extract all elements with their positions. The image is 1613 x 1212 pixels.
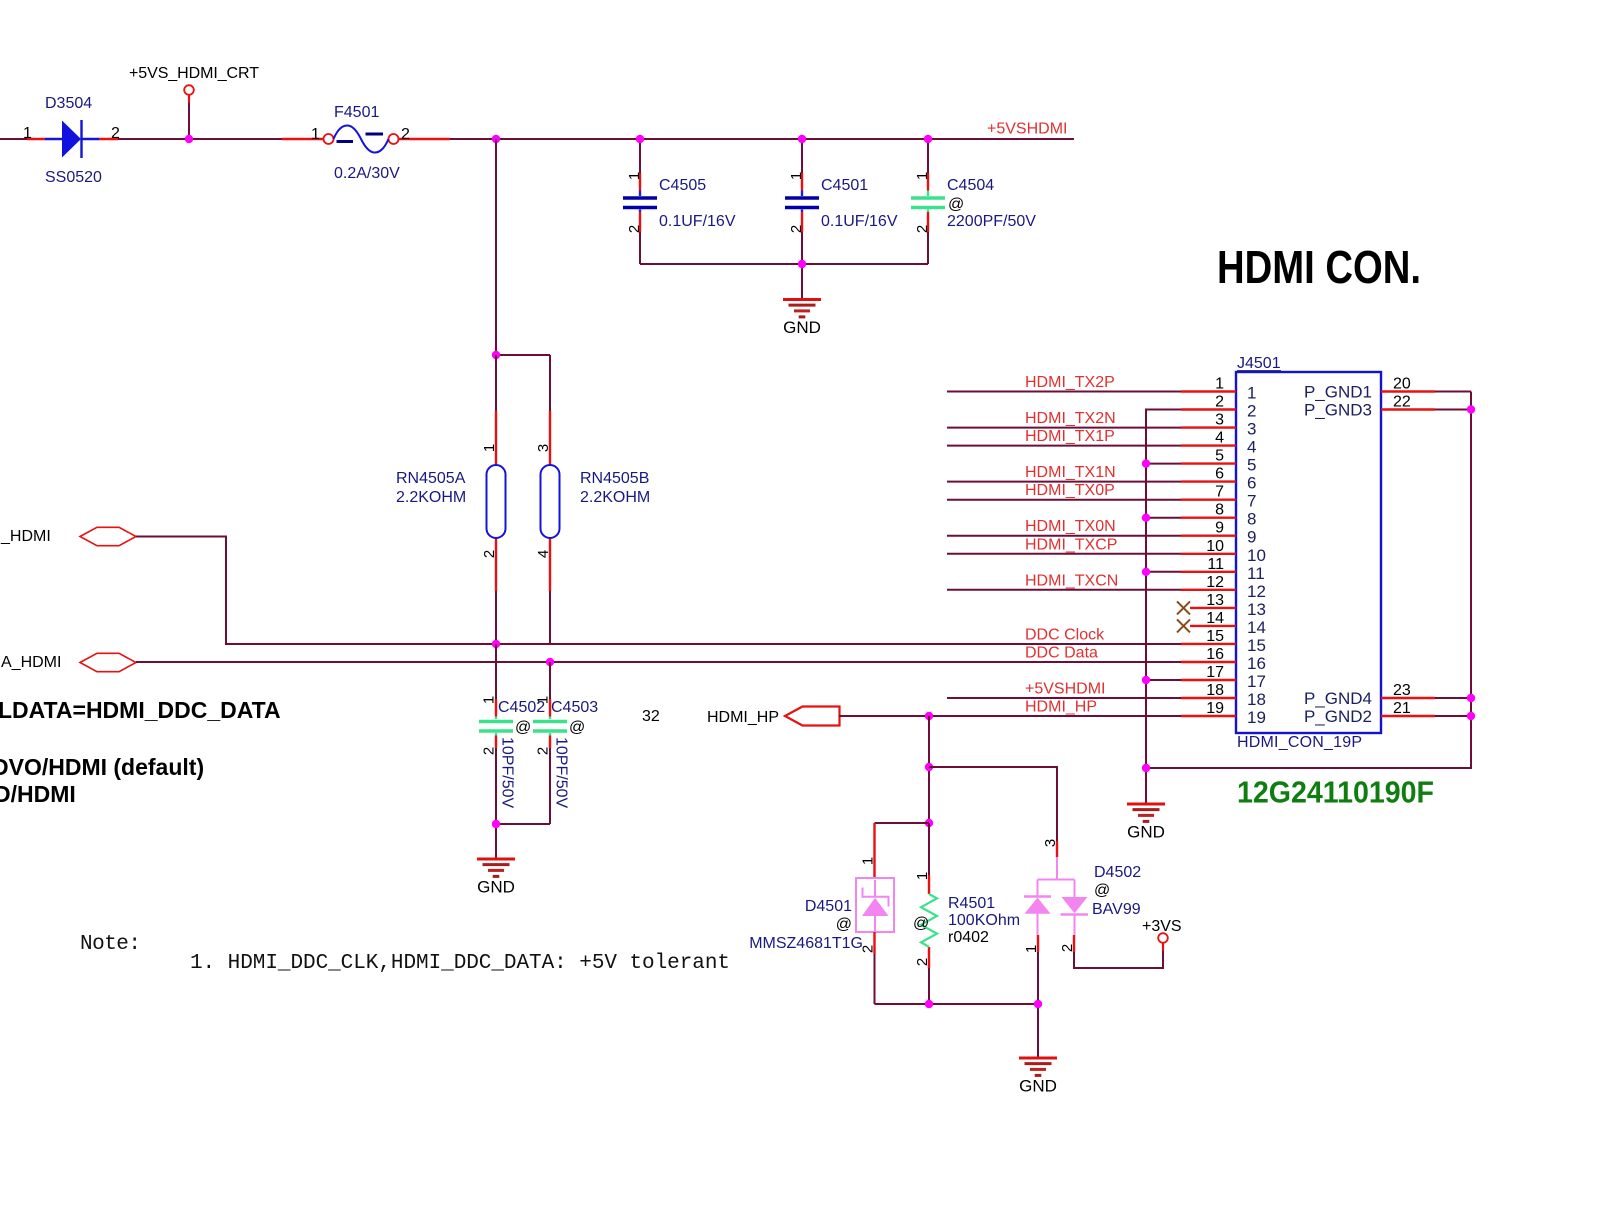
svg-text:1: 1	[481, 444, 498, 452]
svg-text:2.2KOHM: 2.2KOHM	[396, 489, 466, 506]
node junction D4502 branch	[925, 763, 933, 771]
svg-text:16: 16	[1206, 646, 1224, 663]
svg-text:14: 14	[1206, 610, 1224, 627]
wire pin 11 stub	[1181, 571, 1236, 573]
svg-text:C4504: C4504	[947, 177, 994, 194]
svg-text:2: 2	[535, 747, 552, 755]
svg-text:+5VSHDMI: +5VSHDMI	[1025, 681, 1105, 698]
svg-text:LDATA=HDMI_DDC_DATA: LDATA=HDMI_DDC_DATA	[0, 697, 281, 723]
svg-text:1: 1	[1023, 945, 1040, 953]
svg-text:14: 14	[1247, 618, 1266, 637]
svg-text:@: @	[948, 196, 964, 213]
wire pin 2 stub	[1181, 408, 1236, 410]
svg-text:GND: GND	[783, 318, 821, 337]
svg-text:8: 8	[1215, 502, 1224, 519]
svg-text:1: 1	[481, 696, 498, 704]
wire rail to RN4505	[496, 139, 550, 355]
wire bus to pin 5	[1146, 463, 1181, 465]
svg-text:4: 4	[1247, 438, 1256, 457]
svg-text:20: 20	[1393, 376, 1411, 393]
svg-text:0.1UF/16V: 0.1UF/16V	[659, 213, 736, 230]
wire pin 14 stub	[1190, 625, 1236, 627]
wire pin 4 stub	[1181, 444, 1236, 446]
node junction C4502 gnd	[492, 820, 500, 828]
svg-text:GND: GND	[1127, 823, 1165, 842]
wire pin 5 stub	[1181, 462, 1236, 464]
port _HDMI (DDC clock input)	[0, 527, 136, 545]
svg-text:@: @	[836, 916, 852, 933]
node junction DDC clock / RN4505A	[492, 640, 500, 648]
svg-text:2: 2	[1247, 402, 1256, 421]
svg-text:RN4505B: RN4505B	[580, 470, 649, 487]
node junction right gnd	[1467, 405, 1475, 413]
svg-text:1. HDMI_DDC_CLK,HDMI_DDC_DATA:: 1. HDMI_DDC_CLK,HDMI_DDC_DATA: +5V toler…	[190, 952, 730, 975]
svg-text:13: 13	[1247, 600, 1266, 619]
wire bus to pin 17	[1146, 679, 1181, 681]
wire pin 19 stub	[1181, 715, 1236, 717]
svg-text:GND: GND	[1019, 1077, 1057, 1096]
svg-text:100KOhm: 100KOhm	[948, 912, 1020, 929]
svg-text:2: 2	[788, 225, 805, 233]
wire pin 7 stub	[1181, 499, 1236, 501]
svg-text:D3504: D3504	[45, 95, 92, 112]
dual diode D4502	[1023, 839, 1163, 1004]
node junction cap bank gnd	[798, 260, 806, 268]
svg-text:@: @	[1094, 882, 1110, 899]
capacitor C4505	[623, 139, 736, 264]
svg-text:1: 1	[860, 857, 877, 865]
svg-text:2: 2	[401, 126, 410, 143]
svg-text:_HDMI: _HDMI	[0, 528, 51, 545]
svg-text:1: 1	[23, 125, 32, 142]
svg-text:P_GND1: P_GND1	[1304, 383, 1372, 402]
svg-text:@: @	[515, 719, 531, 736]
zener diode D4501	[856, 823, 894, 1004]
svg-text:19: 19	[1247, 708, 1266, 727]
wire pin 3 stub	[1181, 426, 1236, 428]
svg-text:23: 23	[1393, 682, 1411, 699]
svg-text:r0402: r0402	[948, 929, 989, 946]
svg-text:8: 8	[1247, 510, 1256, 529]
svg-text:2: 2	[1215, 394, 1224, 411]
node junction rail D4502	[1034, 1000, 1042, 1008]
svg-text:2: 2	[626, 225, 643, 233]
svg-text:10PF/50V: 10PF/50V	[499, 737, 516, 808]
wire pin 13 stub	[1190, 607, 1236, 609]
svg-text:15: 15	[1247, 636, 1266, 655]
svg-text:A_HDMI: A_HDMI	[1, 654, 61, 671]
no-connect X pin 14	[1177, 619, 1190, 632]
wire bus to pin 11	[1146, 571, 1181, 573]
svg-text:5: 5	[1215, 448, 1224, 465]
svg-text:3: 3	[1215, 412, 1224, 429]
svg-text:5: 5	[1247, 456, 1256, 475]
svg-text:HDMI_TX1N: HDMI_TX1N	[1025, 464, 1116, 481]
svg-text:@: @	[569, 719, 585, 736]
svg-text:2: 2	[111, 125, 120, 142]
svg-text:32: 32	[642, 708, 660, 725]
wire to D4501 pin 1	[875, 822, 930, 824]
power terminal +3VS	[1142, 918, 1182, 943]
wire HDMI_HP down branch	[928, 716, 930, 875]
svg-text:7: 7	[1247, 492, 1256, 511]
node junction HDMI_HP branch	[925, 712, 933, 720]
node junction bus pin 11	[1142, 568, 1150, 576]
svg-text:D4501: D4501	[805, 898, 852, 915]
svg-text:2200PF/50V: 2200PF/50V	[947, 213, 1036, 230]
svg-text:2: 2	[914, 225, 931, 233]
svg-text:10: 10	[1247, 546, 1266, 565]
svg-text:P_GND3: P_GND3	[1304, 401, 1372, 420]
wire C4502/C4503 bottom rail	[496, 824, 550, 859]
capacitor C4504	[911, 139, 1036, 264]
wire DDC data from port to pin 16	[136, 661, 1181, 663]
resistor RN4505B	[535, 355, 560, 644]
svg-text:MMSZ4681T1G: MMSZ4681T1G	[749, 935, 863, 952]
wire bottom rail	[875, 1004, 1039, 1058]
wire pin 6 stub	[1181, 480, 1236, 482]
svg-text:HDMI_HP: HDMI_HP	[1025, 699, 1097, 716]
wire bus to pin 8	[1146, 517, 1181, 519]
svg-text:+5VSHDMI: +5VSHDMI	[987, 121, 1067, 138]
ground connector bus	[1127, 804, 1165, 842]
svg-text:2.2KOHM: 2.2KOHM	[580, 489, 650, 506]
node junction RN feed split	[492, 351, 500, 359]
wire pin 17 stub	[1181, 679, 1236, 681]
svg-text:13: 13	[1206, 592, 1224, 609]
node junction DDC data / RN4505B	[546, 658, 554, 666]
wire right gnd loop	[1146, 392, 1471, 769]
svg-text:2: 2	[1059, 944, 1076, 952]
svg-text:0.1UF/16V: 0.1UF/16V	[821, 213, 898, 230]
wire HDMI_HP to pin 19	[839, 715, 1181, 717]
wire pin 18 stub	[1181, 697, 1236, 699]
port HDMI_HP	[707, 707, 840, 727]
wire pin 8 stub	[1181, 517, 1236, 519]
svg-text:11: 11	[1247, 564, 1265, 583]
no-connect X pin 13	[1177, 601, 1190, 614]
port A_HDMI (DDC data input)	[1, 653, 136, 671]
svg-text:Note:: Note:	[80, 933, 141, 956]
ground cap bank	[783, 300, 821, 338]
node junction bus pin 8	[1142, 514, 1150, 522]
svg-text:3: 3	[1247, 420, 1256, 439]
svg-text:4: 4	[1215, 430, 1224, 447]
wire to D4502 pin 3	[929, 767, 1057, 841]
svg-text:3: 3	[535, 444, 552, 452]
svg-text:19: 19	[1206, 700, 1224, 717]
svg-text:P_GND4: P_GND4	[1304, 689, 1372, 708]
svg-text:1: 1	[788, 172, 805, 180]
svg-text:9: 9	[1247, 528, 1256, 547]
svg-text:+3VS: +3VS	[1142, 918, 1182, 935]
svg-text:DDC Data: DDC Data	[1025, 645, 1098, 662]
svg-text:HDMI_TXCP: HDMI_TXCP	[1025, 536, 1117, 553]
svg-text:17: 17	[1247, 672, 1266, 691]
svg-text:HDMI_TXCN: HDMI_TXCN	[1025, 572, 1118, 589]
svg-text:12: 12	[1247, 582, 1266, 601]
node junction right gnd	[1467, 694, 1475, 702]
svg-text:12G24110190F: 12G24110190F	[1237, 775, 1434, 810]
svg-text:HDMI CON.: HDMI CON.	[1217, 241, 1421, 293]
svg-text:D4502: D4502	[1094, 864, 1141, 881]
node junction C4501 top	[798, 135, 806, 143]
svg-text:2: 2	[481, 747, 498, 755]
svg-text:3: 3	[1042, 839, 1059, 847]
wire pin 21 P_GND2	[1381, 715, 1435, 717]
wire pin 22 P_GND3	[1381, 408, 1435, 410]
svg-text:6: 6	[1247, 474, 1256, 493]
svg-text:1: 1	[914, 872, 931, 880]
wire gnd bus (pins 2,5,8,11,17)	[1146, 410, 1181, 805]
svg-text:1: 1	[311, 126, 320, 143]
svg-text:HDMI_TX2N: HDMI_TX2N	[1025, 410, 1116, 427]
resistor RN4505A	[481, 355, 506, 644]
wire DDC clock from port to pin 15	[136, 537, 1181, 645]
power terminal +5VS_HDMI_CRT	[129, 65, 259, 139]
svg-text:15: 15	[1206, 628, 1224, 645]
svg-text:6: 6	[1215, 466, 1224, 483]
svg-text:10: 10	[1206, 538, 1224, 555]
node junction C4505 top	[636, 135, 644, 143]
node junction CRT tap	[185, 135, 193, 143]
node junction bus pin 5	[1142, 459, 1150, 467]
node junction rail R4501	[925, 1000, 933, 1008]
svg-text:DDC Clock: DDC Clock	[1025, 626, 1105, 643]
svg-text:10PF/50V: 10PF/50V	[553, 737, 570, 808]
svg-text:11: 11	[1207, 556, 1224, 573]
node junction D4501 branch	[925, 819, 933, 827]
svg-text:2: 2	[914, 958, 931, 966]
connector J4501 body	[1236, 372, 1381, 733]
svg-text:HDMI_CON_19P: HDMI_CON_19P	[1237, 734, 1362, 751]
ground C4502/3	[477, 859, 515, 897]
svg-text:9: 9	[1215, 520, 1224, 537]
fuse F4501	[282, 104, 450, 182]
svg-text:D/HDMI: D/HDMI	[0, 781, 76, 807]
svg-text:DVO/HDMI (default): DVO/HDMI (default)	[0, 754, 204, 780]
svg-text:1: 1	[914, 172, 931, 180]
resistor R4501	[914, 823, 937, 1004]
svg-text:1: 1	[626, 172, 643, 180]
wire main +5VSHDMI rail left segment	[0, 138, 1074, 140]
svg-text:C4503: C4503	[551, 699, 598, 716]
capacitor C4503	[533, 662, 567, 824]
svg-text:2: 2	[481, 550, 498, 558]
node junction right gnd	[1467, 712, 1475, 720]
svg-text:@: @	[913, 915, 929, 932]
node junction rail/RN feed	[492, 135, 500, 143]
svg-text:HDMI_HP: HDMI_HP	[707, 709, 779, 726]
svg-text:18: 18	[1206, 682, 1224, 699]
svg-text:+5VS_HDMI_CRT: +5VS_HDMI_CRT	[129, 65, 259, 82]
svg-text:J4501: J4501	[1237, 355, 1281, 372]
svg-text:HDMI_TX2P: HDMI_TX2P	[1025, 374, 1115, 391]
diode D3504	[23, 95, 120, 186]
svg-text:R4501: R4501	[948, 895, 995, 912]
wire pin 1 stub	[1181, 390, 1236, 392]
svg-text:18: 18	[1247, 690, 1266, 709]
wire pin 15 stub	[1181, 643, 1236, 645]
svg-text:RN4505A: RN4505A	[396, 470, 466, 487]
svg-text:F4501: F4501	[334, 104, 379, 121]
wire pin 9 stub	[1181, 535, 1236, 537]
svg-text:22: 22	[1393, 394, 1411, 411]
svg-text:7: 7	[1215, 484, 1224, 501]
svg-text:17: 17	[1206, 664, 1224, 681]
svg-text:C4501: C4501	[821, 177, 868, 194]
capacitor C4501	[785, 139, 898, 264]
wire pin 20 P_GND1	[1381, 390, 1435, 392]
node junction bus/right loop	[1142, 764, 1150, 772]
node junction C4504 top	[924, 135, 932, 143]
capacitor C4502	[479, 644, 513, 824]
wire pin 10 stub	[1181, 553, 1236, 555]
svg-text:HDMI_TX0P: HDMI_TX0P	[1025, 482, 1115, 499]
svg-text:0.2A/30V: 0.2A/30V	[334, 165, 400, 182]
svg-text:HDMI_TX0N: HDMI_TX0N	[1025, 518, 1116, 535]
svg-text:12: 12	[1206, 574, 1224, 591]
wire pin 12 stub	[1181, 589, 1236, 591]
svg-text:GND: GND	[477, 878, 515, 897]
svg-text:P_GND2: P_GND2	[1304, 707, 1372, 726]
svg-text:HDMI_TX1P: HDMI_TX1P	[1025, 428, 1115, 445]
svg-text:BAV99: BAV99	[1092, 901, 1141, 918]
svg-text:16: 16	[1247, 654, 1266, 673]
node junction bus pin 17	[1142, 676, 1150, 684]
wire cap bank bottom rail	[640, 264, 928, 300]
svg-text:1: 1	[1215, 376, 1224, 393]
svg-text:1: 1	[1247, 384, 1256, 403]
ground protection	[1019, 1058, 1057, 1096]
wire pin 16 stub	[1181, 661, 1236, 663]
svg-text:4: 4	[535, 550, 552, 558]
svg-text:21: 21	[1393, 700, 1411, 717]
wire pin 23 P_GND4	[1381, 697, 1435, 699]
svg-text:SS0520: SS0520	[45, 169, 102, 186]
svg-text:C4505: C4505	[659, 177, 706, 194]
svg-text:C4502: C4502	[498, 699, 545, 716]
